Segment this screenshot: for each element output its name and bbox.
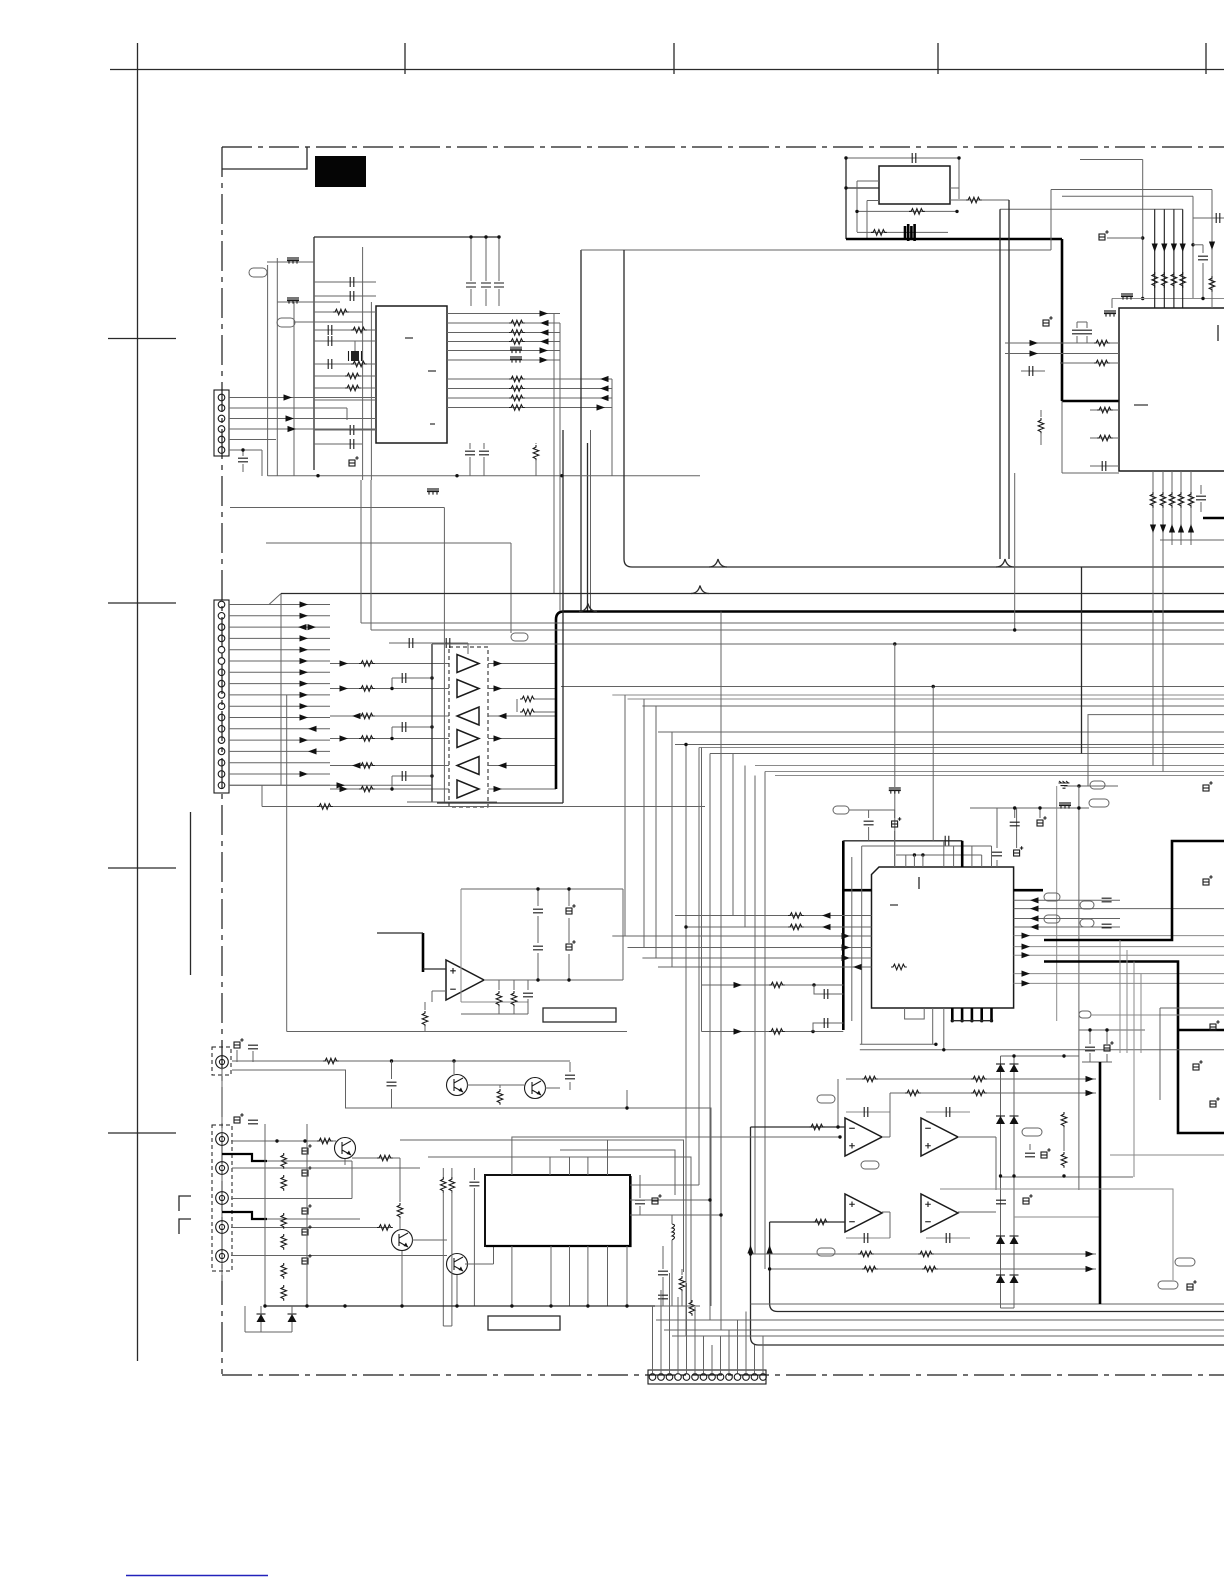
arrow U5 right 8: [1022, 971, 1031, 977]
wire u8 top pin x587.9: [587, 1157, 589, 1175]
wire inter-row b: [392, 726, 432, 728]
wire fb left drop: [837, 1079, 839, 1127]
wire subblock left: [1061, 401, 1063, 473]
wire bold vert x1100: [1099, 1062, 1102, 1304]
wire U4 in row2: [1005, 353, 1119, 355]
junction: [390, 687, 393, 690]
wire cap col a: [537, 889, 539, 906]
wire CN2 row 13: [229, 739, 330, 741]
resistor R31: [909, 209, 925, 215]
op-amp U7b: [921, 1118, 958, 1156]
wire U4 bottom pin 1: [1152, 471, 1154, 766]
wire j1 stub up: [236, 1050, 238, 1062]
capacitor C33 polarized: [1099, 230, 1109, 240]
wire vert x444: [443, 508, 445, 803]
wire q2 out: [545, 1087, 560, 1089]
wire U1 row 7: [447, 378, 612, 380]
wire drop x644: [643, 699, 645, 948]
junction: [303, 1139, 306, 1142]
diode D at y1120 b: [1010, 1116, 1019, 1124]
wire bottom bus y1330: [664, 1329, 1224, 1331]
wire u8 bottom pin x627: [626, 1246, 628, 1306]
wire CN2 long drop: [286, 695, 288, 1032]
junction: [999, 1174, 1002, 1177]
arrow U5 right 1: [1030, 897, 1039, 903]
resistor R82: [862, 1076, 878, 1082]
CN2 pin 16: [218, 771, 225, 778]
wire oa3 out: [882, 1211, 890, 1213]
wire CN2 row 8: [229, 683, 330, 685]
wire cap C40 stub: [1202, 245, 1204, 253]
arrow U5 left 1: [822, 912, 831, 918]
wire low rail: [266, 542, 511, 544]
wire y1332: [245, 1331, 292, 1333]
wire U1 row 2: [447, 322, 560, 324]
wire drop x721: [720, 612, 722, 1331]
wire diode col a: [1000, 1056, 1002, 1308]
wire l1 stub: [671, 1215, 673, 1224]
wire CN1 row5: [229, 439, 276, 441]
wire bold link left: [843, 889, 871, 892]
ferrite bead FB15: [510, 356, 522, 363]
wire gnd row: [1064, 785, 1118, 787]
label P112: [817, 1095, 835, 1103]
wire U4 top pin 6: [1211, 190, 1213, 309]
junction: [625, 1106, 628, 1109]
wire bus y686: [561, 686, 1224, 688]
wire bottom row: [262, 806, 705, 808]
wire CN5 riser 6: [694, 1307, 696, 1373]
junction: [684, 925, 687, 928]
CN2 pin 4: [218, 635, 225, 642]
capacitor C9: [350, 425, 354, 435]
resistor R52: [1169, 492, 1175, 508]
arrow CN2 row5: [300, 647, 309, 653]
wire bottom row drop: [261, 785, 263, 806]
resistor R50: [1150, 492, 1156, 508]
wire CN5 riser 3: [669, 1273, 671, 1373]
wire U4 in row1: [1005, 342, 1119, 344]
wire U5 top pin x894.8: [894, 855, 896, 867]
wire bus vert D merge: [587, 603, 589, 612]
jack CN4 dashed box: [212, 1125, 232, 1271]
wire drop x701: [701, 748, 703, 986]
frame tick mark 3: [937, 43, 939, 74]
wire cap dogleg 2: [813, 1023, 843, 1032]
capacitor C61: [824, 1018, 828, 1028]
resistor R27: [520, 696, 536, 702]
wire cap C59 stub2: [1106, 1054, 1108, 1062]
wire c96 stub2: [639, 1206, 641, 1215]
wire q1 riser: [453, 1061, 455, 1074]
arrow U5 left 5: [842, 955, 851, 961]
wire q5 down: [456, 1275, 458, 1306]
capacitor C13: [479, 451, 489, 455]
wire cap col a3: [537, 953, 539, 980]
bus merge fork 4: [579, 604, 597, 612]
wire cap pair drop a: [1076, 322, 1078, 328]
junction: [586, 1304, 589, 1307]
wire CN2 row 7: [229, 671, 330, 673]
junction: [430, 774, 433, 777]
junction: [957, 156, 960, 159]
capacitor C92: [387, 1082, 397, 1086]
wire U5 left rail b: [861, 846, 863, 1044]
arrow y1269: [1086, 1266, 1095, 1272]
wire vert x1081: [1081, 567, 1083, 754]
wire vert x1057: [1056, 786, 1058, 1021]
jack J3: [216, 1162, 229, 1175]
wire U5 top pin x905.8: [905, 855, 907, 867]
junction: [484, 235, 487, 238]
wire bold y1030: [1178, 1029, 1224, 1032]
resistor R41: [1162, 272, 1168, 288]
capacitor C98 polarized: [652, 1194, 662, 1204]
junction: [1077, 806, 1080, 809]
wire U4 bottom pin 3: [1171, 471, 1173, 545]
wire cap drop 3: [498, 237, 500, 281]
wire cap x997 stub2: [996, 860, 998, 867]
wire U1 row 6: [447, 359, 560, 361]
junction: [812, 983, 815, 986]
label P118: [1158, 1281, 1178, 1289]
capacitor C64 polarized: [566, 904, 576, 914]
wire cap C59 stub: [1106, 1030, 1108, 1044]
resistor R54: [1188, 492, 1194, 508]
wire cap drop 1b: [470, 289, 472, 306]
wire d11 stub: [291, 1306, 293, 1314]
wire bus vert x361: [360, 480, 362, 623]
resistor R5: [345, 385, 361, 391]
capacitor C12: [465, 451, 475, 455]
signal arrow row 7: [600, 376, 609, 382]
resistor R108: [689, 1300, 695, 1316]
wire vert x1127: [1126, 950, 1128, 1053]
arrow buffer out 1: [494, 660, 503, 666]
wire bus vert x371: [370, 480, 372, 630]
arrow aux row2: [734, 1028, 743, 1034]
wire aux y1254: [751, 1253, 1097, 1255]
junction: [719, 1213, 722, 1216]
capacitor C100 polarized: [302, 1144, 312, 1154]
wire U5 top pin x922.9: [922, 855, 924, 867]
label P110: [1080, 919, 1094, 927]
CN1 pin 3: [218, 415, 225, 422]
ferrite bead FB1: [287, 257, 299, 264]
capacitor C81 polarized: [1203, 875, 1213, 885]
wire vert x1120: [1119, 940, 1121, 1053]
wire d10 stub2: [260, 1322, 262, 1332]
CN5 pin 7: [700, 1374, 707, 1381]
transistor Q2: [525, 1078, 546, 1099]
buffer U2e: [457, 757, 479, 775]
junction: [855, 210, 858, 213]
wire cap C58 stub2: [1089, 1053, 1091, 1062]
wire r106 stub2: [451, 1191, 453, 1326]
wire u8 right row2: [630, 1199, 710, 1201]
buffer U2a: [457, 655, 479, 673]
wire U3 rstub: [950, 187, 959, 189]
junction: [390, 1059, 393, 1062]
signal arrow row 2: [540, 320, 549, 326]
wire U5 pin x933: [932, 687, 934, 841]
resistor R113: [281, 1234, 287, 1250]
capacitor C55b: [1010, 822, 1020, 826]
CN5 pin 5: [683, 1374, 690, 1381]
wire cap row y218: [1193, 217, 1224, 219]
wire cap C43 stub: [1021, 370, 1045, 372]
CN5 pin 11: [734, 1374, 741, 1381]
arrow U5 left 3: [842, 933, 851, 939]
wire U3 inner2v: [866, 201, 868, 240]
junction: [1105, 1028, 1108, 1031]
wire CN2 row 11: [229, 717, 330, 719]
wire buffer row 2 out: [488, 688, 556, 690]
ground bead G2: [1121, 293, 1133, 300]
op-amp U6: [446, 960, 484, 1000]
wire u8 top pin x550: [549, 1157, 551, 1175]
wire bottom bus y1336: [672, 1335, 1224, 1337]
signal arrow row 1: [540, 310, 549, 316]
wire c97 stub: [473, 1168, 475, 1180]
CN1 pin 6: [218, 447, 225, 454]
resistor R86: [858, 1251, 874, 1257]
CN2 pin 14: [218, 748, 225, 755]
wire drop x765: [764, 772, 766, 1270]
wire CN5 riser 7: [703, 1336, 705, 1373]
capacitor C104 polarized: [302, 1254, 312, 1264]
wire j3 row: [232, 1167, 420, 1169]
wire oa0 feed: [377, 932, 423, 934]
wire CN5 riser 4: [677, 1297, 679, 1373]
wire q4 right: [412, 1239, 447, 1241]
CN5 pin 6: [692, 1374, 699, 1381]
resistor R100: [323, 1058, 339, 1064]
wire U3 right stub: [958, 158, 960, 199]
wire diode top: [1001, 1055, 1079, 1057]
wire q3 right: [352, 1157, 400, 1159]
wire row y430: [314, 429, 376, 431]
wire U5 right row 8: [1014, 973, 1224, 975]
wire oa3 in drop: [770, 1222, 1224, 1312]
junction: [455, 1304, 458, 1307]
wire CN5 riser 5: [686, 1283, 688, 1373]
junction: [913, 853, 916, 856]
arrow CN2 row11: [300, 714, 309, 720]
frame tick mark 2: [673, 43, 675, 74]
wire row y388: [314, 387, 376, 389]
resistor R85: [971, 1090, 987, 1096]
audio ic U8 body: [485, 1175, 630, 1246]
label P107: [1044, 893, 1060, 901]
wire U4 bottom pin 4: [1180, 471, 1182, 545]
junction: [1062, 1174, 1065, 1177]
junction: [955, 210, 958, 213]
wire stair a: [232, 1070, 711, 1306]
capacitor C53: [992, 852, 1002, 856]
wire top right y196: [1062, 195, 1193, 197]
junction: [1012, 1054, 1015, 1057]
wire cap fb d: [926, 1237, 970, 1239]
capacitor C32: [1216, 213, 1220, 223]
junction: [951, 1019, 954, 1022]
wire U5 left row 1: [675, 915, 872, 917]
wire oa3 out down: [889, 1212, 891, 1238]
wire bus y567: [624, 250, 1224, 567]
capacitor C41: [1072, 330, 1082, 334]
capacitor C99: [658, 1271, 668, 1275]
CN1 pin 5: [218, 436, 225, 443]
junction: [343, 1304, 346, 1307]
arrow CN2 row14 left: [308, 748, 317, 754]
wire below U1 c: [535, 443, 537, 444]
resistor R88: [862, 1266, 878, 1272]
junction: [838, 1135, 841, 1138]
wire U1 row 8: [447, 388, 612, 390]
CN5 pin 1: [649, 1374, 656, 1381]
wire stair a stub: [626, 1090, 628, 1108]
wire sub row2: [1090, 437, 1119, 439]
resistor R13: [509, 339, 525, 345]
wire cap C51 stub2: [868, 827, 870, 841]
regulator U3 body: [879, 166, 950, 204]
junction: [893, 642, 896, 645]
wire U3 inner2: [867, 200, 879, 202]
wire pc stub: [894, 810, 896, 818]
CN5 pin 4: [675, 1374, 682, 1381]
capacitor C20: [409, 638, 413, 648]
wire below U1 c2: [535, 460, 537, 476]
wire U5 pin x981: [981, 855, 983, 867]
label P103: [511, 633, 528, 641]
wire U5 aux row2: [702, 1031, 844, 1033]
op-amp U7c: [845, 1194, 882, 1232]
junction: [241, 448, 244, 451]
wire c91 stub: [252, 1051, 254, 1062]
wire res bottom rail: [461, 1013, 528, 1015]
wire bus vert D: [587, 443, 589, 603]
arrow U5 right 5: [1022, 933, 1031, 939]
U4 label dash: [1134, 404, 1148, 406]
wire cap C46 stub2: [1200, 502, 1202, 512]
board boundary top: [222, 146, 1224, 148]
wire u8 top y1157: [428, 1157, 691, 1302]
wire row y282: [314, 281, 376, 283]
wire U1 row 1: [447, 313, 560, 315]
CN2 pin 13: [218, 737, 225, 744]
wire CN5 riser 10: [728, 1330, 730, 1373]
connector CN5 body: [648, 1370, 766, 1384]
CN5 pin 13: [751, 1374, 758, 1381]
wire bold link U4: [1062, 400, 1119, 403]
wire cap dogleg 1: [814, 985, 843, 994]
ground G3: [1059, 781, 1070, 788]
wire U5 pin x943: [943, 841, 945, 867]
capacitor C54 polarized: [1014, 846, 1024, 856]
wire diode mid rail: [1001, 1176, 1134, 1178]
wire CN2 row 15: [229, 762, 330, 764]
arrow y1093: [1086, 1090, 1095, 1096]
capacitor C46: [1196, 496, 1206, 500]
label P101: [249, 268, 267, 277]
arrow CN2 row3 right: [308, 624, 317, 630]
wire row y400: [314, 399, 376, 401]
junction: [560, 474, 563, 477]
wire oa0 minus stub: [431, 991, 433, 1002]
arrow U5 left 2: [822, 924, 831, 930]
resistor R47: [1097, 407, 1113, 413]
capacitor C56: [1102, 898, 1112, 902]
wire vert x1000: [999, 209, 1001, 559]
frame left tick D: [108, 867, 176, 869]
wire drop x745: [744, 766, 746, 928]
arrow U4 top 6: [1209, 242, 1215, 251]
wire right g2: [940, 1189, 1173, 1280]
wire U5 right row 4: [1014, 926, 1120, 928]
wire bus line y765.5: [755, 765, 1224, 767]
wire q1 q2 link: [467, 1084, 524, 1086]
wire CN5 riser 14: [762, 1336, 764, 1373]
wire label stub: [849, 809, 895, 811]
capacitor C74: [1025, 1153, 1035, 1157]
wire d11 stub2: [291, 1322, 293, 1332]
wire bus vert E: [611, 379, 613, 476]
wire vert x1134: [1133, 962, 1135, 1178]
resistor R89: [922, 1266, 938, 1272]
junction: [390, 737, 393, 740]
buffer U2b: [457, 680, 479, 698]
wire u8 bottom pin x587.9: [587, 1246, 589, 1306]
wire c99 stub: [662, 1246, 664, 1269]
resistor R90: [1061, 1112, 1067, 1128]
wire U5 bold pin rail: [952, 1020, 991, 1022]
wire top right y159: [1080, 159, 1143, 161]
wire jack ground chain: [221, 1068, 223, 1281]
junction: [844, 186, 847, 189]
arrow CN1 row1: [284, 394, 293, 400]
diode D at y1279 b: [1010, 1275, 1019, 1283]
wire CN2 row 17: [229, 784, 330, 786]
resistor R61: [788, 924, 804, 930]
wire y1161 ext: [267, 1160, 352, 1162]
ferrite bead FB5: [1059, 802, 1071, 809]
CN5 pin 10: [726, 1374, 733, 1381]
wire U5 right row 1: [1014, 899, 1120, 901]
junction: [970, 1019, 973, 1022]
junction: [455, 474, 458, 477]
wire CN5 riser 11: [737, 1320, 739, 1373]
wire buffer row 5 out: [488, 765, 556, 767]
capacitor C101 polarized: [302, 1166, 312, 1176]
wire oa1 in drop: [751, 1127, 1224, 1345]
wire CN1 row4: [229, 428, 376, 430]
capacitor C93: [565, 1075, 575, 1079]
wire cap top link: [1077, 321, 1087, 323]
signal arrow row 3: [540, 329, 549, 335]
wire top right y209: [1000, 208, 1183, 210]
wire cap col a2: [537, 916, 539, 943]
wire CN5 riser 8: [711, 1345, 713, 1373]
arrow CN2 row16: [300, 771, 309, 777]
wire cap a2: [1076, 336, 1078, 343]
capacitor C83 polarized: [1193, 1060, 1203, 1070]
capacitor C44 polarized: [1043, 316, 1053, 326]
junction: [510, 1304, 513, 1307]
wire x400 drop2: [399, 1218, 401, 1229]
U1 label dash 1: [405, 337, 413, 339]
wire oa0 fb bottom: [461, 1001, 528, 1003]
wire bus line y699: [628, 698, 1224, 700]
